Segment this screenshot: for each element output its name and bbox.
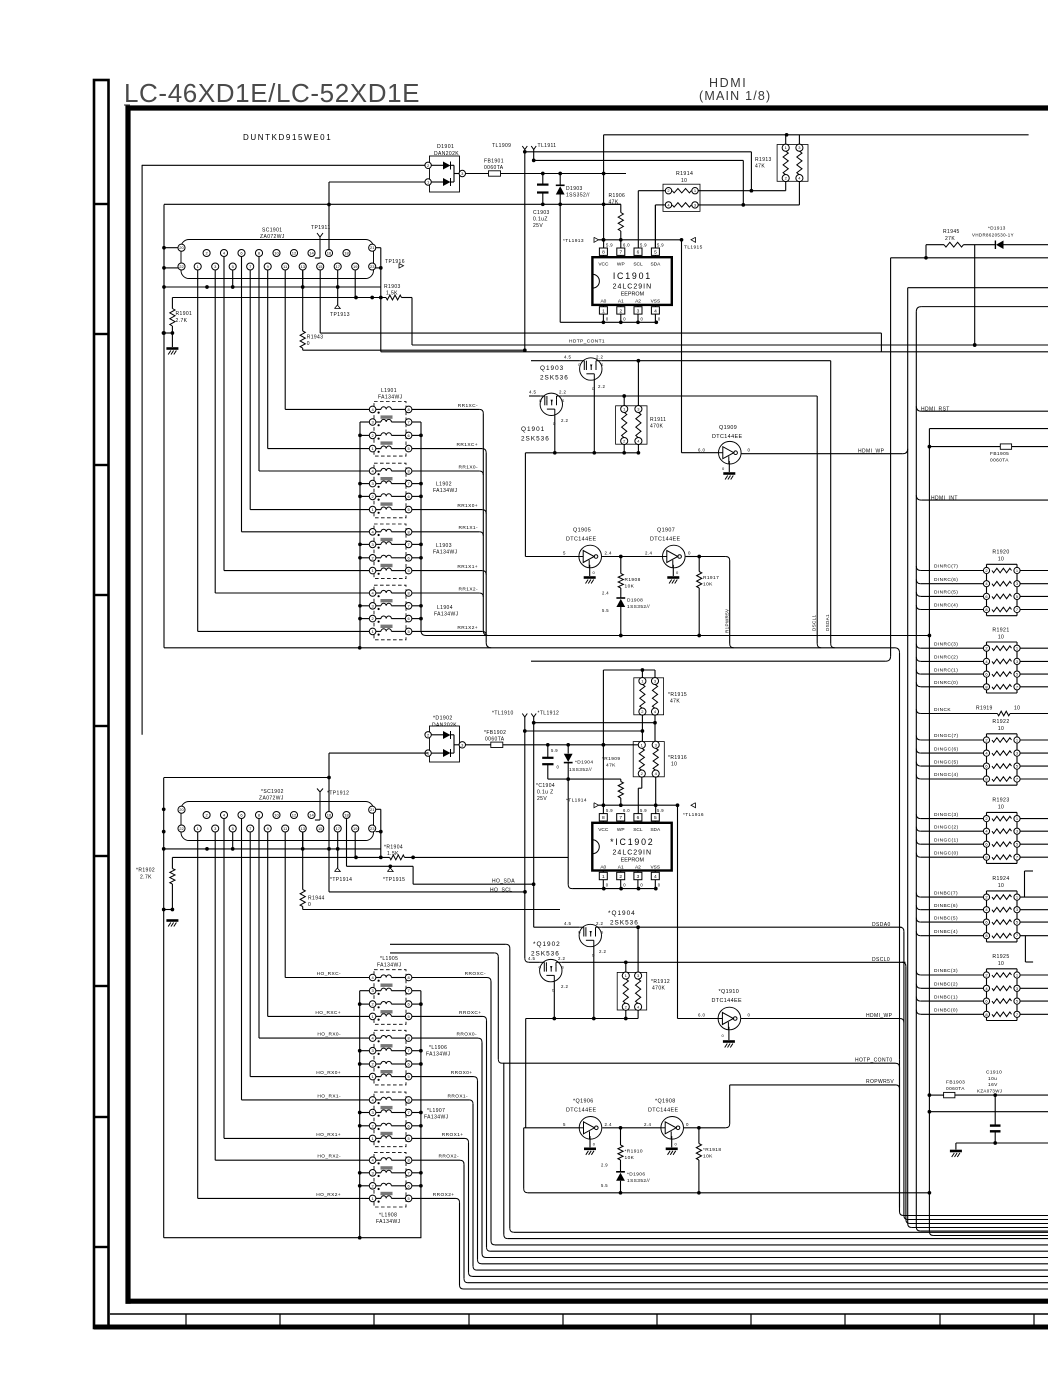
- diode D1908 1SS352//: [602, 588, 650, 636]
- diode D1901 DAN202K: [425, 144, 466, 192]
- svg-text:4.5: 4.5: [528, 956, 535, 961]
- svg-text:G: G: [578, 363, 581, 367]
- svg-text:6.0: 6.0: [698, 1013, 705, 1018]
- svg-text:SDA: SDA: [650, 827, 661, 833]
- svg-text:14: 14: [309, 813, 314, 818]
- ground below R1902: [166, 921, 178, 927]
- svg-text:0060TA: 0060TA: [484, 165, 504, 171]
- svg-text:HO_SDA: HO_SDA: [492, 878, 515, 884]
- svg-text:4.5: 4.5: [564, 921, 571, 926]
- diode D1904 1SS352//: [551, 745, 593, 773]
- wire mid node: [164, 202, 621, 206]
- wire HDTP_CONT1: [412, 343, 1048, 347]
- svg-text:G: G: [578, 931, 581, 935]
- svg-text:HDMI: HDMI: [709, 76, 747, 90]
- wire R1911 pin3 up: [637, 361, 639, 406]
- svg-text:0: 0: [675, 1141, 678, 1146]
- wire HOTP down: [899, 1067, 901, 1207]
- svg-text:5.9: 5.9: [640, 808, 647, 813]
- wire SCL rail: [320, 270, 881, 333]
- svg-text:13: 13: [300, 826, 305, 831]
- resistor R1917 10K: [697, 557, 720, 636]
- wire IC1901 ground bus: [560, 204, 658, 324]
- svg-text:A2: A2: [635, 864, 641, 870]
- svg-text:R1920: R1920: [992, 550, 1009, 556]
- svg-text:HO_RXC+: HO_RXC+: [315, 1010, 341, 1016]
- svg-text:R1PWR5V: R1PWR5V: [725, 608, 730, 633]
- svg-text:10: 10: [1014, 706, 1020, 712]
- svg-text:2: 2: [619, 874, 622, 880]
- svg-text:5.9: 5.9: [640, 242, 647, 247]
- resistor network R1923 10: [916, 798, 1048, 864]
- svg-text:DSDA0: DSDA0: [872, 922, 891, 928]
- svg-text:LC-46XD1E/LC-52XD1E: LC-46XD1E/LC-52XD1E: [124, 78, 420, 108]
- wire SC1901 pin21 right: [376, 248, 383, 352]
- wire R1911 pin1 up: [623, 396, 625, 406]
- svg-text:5.5: 5.5: [601, 1183, 608, 1188]
- svg-text:RROX1+: RROX1+: [442, 1132, 464, 1138]
- svg-text:*C1904: *C1904: [536, 783, 555, 789]
- wire SC1902 pin21 right: [376, 809, 383, 859]
- svg-text:FA134WJ: FA134WJ: [376, 1219, 401, 1225]
- resistor network R1922 10: [916, 719, 1048, 785]
- wire top rail: [604, 133, 1029, 137]
- ground below C1910: [950, 1151, 962, 1157]
- wire SDA rail: [381, 333, 1048, 352]
- svg-text:TL1911: TL1911: [538, 143, 557, 149]
- svg-text:2.4: 2.4: [605, 551, 612, 556]
- svg-text:(MAIN 1/8): (MAIN 1/8): [699, 89, 771, 103]
- svg-text:5: 5: [654, 815, 657, 821]
- svg-text:DINRC(3): DINRC(3): [934, 641, 958, 647]
- svg-text:DTC144EE: DTC144EE: [712, 434, 742, 440]
- svg-text:DSCL1: DSCL1: [812, 615, 817, 631]
- svg-text:2SK536: 2SK536: [610, 919, 639, 926]
- wire TL1912 net: [532, 721, 657, 725]
- svg-text:FA134WJ: FA134WJ: [434, 612, 459, 618]
- svg-text:DINGC(1): DINGC(1): [934, 837, 959, 843]
- svg-text:TL1909: TL1909: [492, 143, 511, 149]
- svg-text:HO_RX2+: HO_RX2+: [316, 1192, 341, 1198]
- test pad TP1913: [330, 270, 350, 318]
- test pad TP1911: [311, 225, 331, 258]
- test pad TP1914: [330, 832, 352, 883]
- svg-text:DINBC(1): DINBC(1): [934, 994, 958, 1000]
- svg-text:2.2: 2.2: [596, 921, 603, 926]
- svg-text:R1919: R1919: [976, 706, 993, 712]
- svg-text:S: S: [562, 966, 565, 970]
- svg-text:RROX0-: RROX0-: [456, 1032, 477, 1038]
- svg-text:2.2: 2.2: [598, 384, 605, 389]
- ground below Q1905: [584, 578, 596, 584]
- svg-text:*R1915: *R1915: [668, 692, 687, 698]
- wire ground rail B: [164, 646, 900, 1059]
- wire TL1915 vertical: [682, 240, 719, 453]
- svg-text:2.7K: 2.7K: [176, 318, 188, 324]
- svg-text:5.5: 5.5: [602, 608, 609, 613]
- bus rail V3: [916, 307, 1048, 1231]
- svg-text:47K: 47K: [755, 164, 765, 170]
- svg-text:0: 0: [748, 448, 751, 453]
- test pad TP1912: [315, 789, 349, 821]
- svg-text:ZA072WJ: ZA072WJ: [260, 234, 285, 240]
- wire rail mid: [929, 1111, 1048, 1113]
- wire SC1901 pin stubs: [233, 270, 356, 297]
- svg-text:4.5: 4.5: [529, 390, 536, 395]
- svg-text:4.5: 4.5: [564, 354, 571, 359]
- wire SC1902 pin23 right: [376, 831, 381, 833]
- svg-text:TP1913: TP1913: [330, 312, 350, 318]
- svg-text:VCC: VCC: [598, 261, 609, 267]
- svg-text:470K: 470K: [650, 424, 664, 430]
- wire R1913 pin1 up: [785, 135, 787, 145]
- svg-text:DINGC(2): DINGC(2): [934, 824, 959, 830]
- svg-text:L1903: L1903: [436, 543, 452, 549]
- wire R1912 pin3 up: [637, 927, 639, 972]
- svg-text:*R1902: *R1902: [136, 868, 155, 874]
- svg-text:47K: 47K: [609, 200, 619, 206]
- wire D1901 pin1 horizontal: [327, 182, 428, 249]
- svg-text:*R1909: *R1909: [602, 756, 620, 762]
- wire Q1901 drain: [553, 415, 557, 454]
- resistor R1919 10 DINCK: [916, 706, 1048, 716]
- resistor network R1914 10: [663, 171, 700, 211]
- svg-text:Q1905: Q1905: [573, 528, 591, 534]
- svg-text:C1903: C1903: [533, 210, 550, 216]
- svg-text:0060TA: 0060TA: [485, 736, 505, 742]
- transistor Q1909 DTC144EE: [698, 425, 751, 464]
- svg-text:3: 3: [637, 308, 640, 314]
- svg-text:HO_SCL: HO_SCL: [490, 887, 512, 893]
- svg-text:*TL1916: *TL1916: [683, 812, 704, 818]
- svg-text:FA134WJ: FA134WJ: [426, 1052, 451, 1058]
- svg-text:*TL1913: *TL1913: [563, 238, 584, 244]
- svg-text:DINCK: DINCK: [934, 707, 951, 713]
- svg-text:R1908: R1908: [625, 577, 641, 583]
- svg-text:RROX0+: RROX0+: [451, 1070, 473, 1076]
- wire R1915 top tie: [603, 668, 655, 678]
- svg-text:5.9: 5.9: [551, 748, 558, 753]
- wire aux rail to HOTP: [390, 953, 498, 1059]
- net label HDTP_CONT1: [569, 339, 605, 345]
- svg-text:R1944: R1944: [308, 896, 325, 902]
- wire SC1901 pin20: [164, 247, 178, 249]
- svg-text:0060TA: 0060TA: [946, 1086, 965, 1092]
- wire R1915 pin2 down: [641, 715, 643, 742]
- bus rail V4: [928, 429, 1048, 1236]
- svg-text:DINRC(4): DINRC(4): [934, 603, 958, 609]
- svg-text:0: 0: [748, 1013, 751, 1018]
- wires filters left feeds: [198, 409, 370, 631]
- svg-text:FA134WJ: FA134WJ: [377, 963, 402, 969]
- test land TL1913: [563, 237, 599, 244]
- wire lower FET bus: [526, 1019, 638, 1128]
- resistor R1943 0: [300, 270, 527, 352]
- resistor R1944 0: [300, 832, 560, 909]
- svg-text:0: 0: [688, 551, 691, 556]
- svg-text:*SC1902: *SC1902: [261, 789, 284, 795]
- net label HDMI_WP top: [741, 448, 908, 454]
- svg-text:0: 0: [676, 570, 679, 575]
- svg-text:VHDR8620530-1Y: VHDR8620530-1Y: [972, 233, 1014, 238]
- svg-text:25V: 25V: [537, 796, 547, 802]
- svg-text:FB1901: FB1901: [484, 159, 504, 165]
- voltage labels IC1902 top: [606, 808, 664, 813]
- svg-text:HO_RX1+: HO_RX1+: [316, 1132, 341, 1138]
- resistor network R1916 10: [633, 741, 687, 777]
- svg-text:D1903: D1903: [566, 186, 583, 192]
- svg-text:0: 0: [593, 1141, 596, 1146]
- svg-text:DTC144EE: DTC144EE: [712, 998, 742, 1004]
- wire left vertical to D1901 pin2 / D1902 pin2: [141, 165, 143, 735]
- test land TL1912: [531, 711, 559, 928]
- svg-text:*IC1902: *IC1902: [610, 837, 654, 847]
- svg-text:DSCL0: DSCL0: [872, 957, 890, 963]
- svg-text:25V: 25V: [533, 223, 543, 229]
- diode D1902 DAN202K: [425, 716, 466, 763]
- svg-text:7: 7: [619, 250, 622, 256]
- svg-text:VSS: VSS: [651, 299, 661, 305]
- wire R1912 pins down: [624, 1010, 638, 1020]
- svg-text:*FB1902: *FB1902: [484, 730, 506, 736]
- svg-text:*R1918: *R1918: [703, 1147, 721, 1153]
- left registration column: [94, 80, 109, 1328]
- svg-text:DAN202K: DAN202K: [434, 151, 459, 157]
- net label ROPWR5V: [866, 1079, 894, 1085]
- net label DSDA0: [872, 922, 904, 931]
- wire R1914 pin2 to Q1903 node: [638, 191, 665, 248]
- net label HDMI_RST: [916, 406, 1048, 412]
- wire R1916 pin4 down: [654, 777, 658, 814]
- svg-text:R1903: R1903: [384, 284, 401, 290]
- net label HO_SDA: [492, 878, 515, 884]
- ground below Q1909: [723, 474, 735, 480]
- svg-text:8: 8: [602, 815, 605, 821]
- svg-text:19: 19: [353, 264, 358, 269]
- inductor block L1901 FA134WJ: [369, 388, 412, 456]
- wire TL1909 net: [525, 152, 753, 193]
- svg-text:2.4: 2.4: [605, 1122, 612, 1127]
- svg-text:1.5K: 1.5K: [386, 291, 398, 297]
- svg-text:DINGC(0): DINGC(0): [934, 850, 959, 856]
- wire D1901 pin2 horizontal: [142, 164, 428, 166]
- svg-text:10: 10: [998, 883, 1004, 889]
- svg-text:2SK536: 2SK536: [521, 436, 550, 443]
- net label R1PWR5V: [725, 608, 730, 633]
- net label HDMI_INT: [916, 495, 1048, 501]
- svg-text:*D1906: *D1906: [627, 1171, 645, 1177]
- wire TL1914 rail: [599, 803, 680, 807]
- svg-text:0.1u Z: 0.1u Z: [537, 790, 554, 796]
- svg-text:WP: WP: [617, 827, 625, 833]
- ferrite bead FB1901 0060TA: [484, 159, 504, 177]
- svg-text:DTC144EE: DTC144EE: [648, 1107, 678, 1113]
- wire D1904 to IC bus: [566, 763, 572, 889]
- transistor Q1907 DTC144EE: [645, 528, 691, 568]
- svg-text:A2: A2: [635, 299, 641, 305]
- diode D1913 VHD9820530-1Y: [972, 226, 1048, 250]
- svg-text:KZA073WJ: KZA073WJ: [977, 1088, 1002, 1093]
- svg-text:R1925: R1925: [992, 954, 1009, 960]
- svg-text:DINBC(3): DINBC(3): [934, 968, 958, 974]
- svg-text:0: 0: [593, 570, 596, 575]
- bottom ruler: [94, 1314, 1048, 1327]
- wire TL1913 rail: [599, 238, 684, 242]
- svg-text:DSDA1: DSDA1: [825, 614, 830, 631]
- svg-text:DINBC(4): DINBC(4): [934, 929, 958, 935]
- svg-text:18: 18: [344, 251, 349, 256]
- svg-text:10K: 10K: [703, 1154, 713, 1160]
- lower filter ground bus right: [412, 991, 423, 1238]
- svg-text:6.0: 6.0: [623, 242, 630, 247]
- ferrite bead FB1903 0060TA: [929, 1080, 1048, 1098]
- wire Q1910 emitter ground: [722, 1027, 729, 1040]
- ground below Q1907: [667, 578, 679, 584]
- svg-text:L1902: L1902: [436, 482, 452, 488]
- svg-text:20: 20: [179, 807, 184, 812]
- svg-text:VSS: VSS: [650, 864, 660, 870]
- bus rail V2: [908, 288, 1048, 1228]
- svg-text:4: 4: [654, 874, 657, 880]
- bus rail V1: [886, 258, 1048, 661]
- svg-text:HO_RXC-: HO_RXC-: [317, 971, 341, 977]
- svg-text:IC1901: IC1901: [613, 271, 652, 281]
- wire Q1906 emitter ground: [590, 1136, 596, 1147]
- svg-text:RROXC-: RROXC-: [465, 971, 486, 977]
- svg-text:R1943: R1943: [307, 335, 324, 341]
- capacitor C1904 0.1uZ 25V: [536, 745, 555, 802]
- svg-text:0: 0: [308, 902, 311, 908]
- svg-text:47K: 47K: [606, 763, 616, 769]
- svg-text:RR1X0+: RR1X0+: [457, 503, 478, 509]
- svg-text:18: 18: [344, 813, 349, 818]
- svg-text:1.5K: 1.5K: [387, 851, 399, 857]
- wire Q1908 out: [684, 1085, 730, 1130]
- resistor R1903 1.5K: [172, 284, 412, 300]
- svg-text:*R1916: *R1916: [668, 755, 687, 761]
- wire R1913 pin4 down: [798, 181, 800, 205]
- svg-text:RROXC+: RROXC+: [459, 1010, 482, 1016]
- net label DSCL1: [812, 615, 817, 631]
- svg-text:C1910: C1910: [986, 1070, 1002, 1076]
- svg-text:2.2: 2.2: [559, 390, 566, 395]
- svg-text:RR1X2-: RR1X2-: [459, 586, 478, 592]
- resistor R1909 47K: [602, 756, 623, 805]
- svg-text:17: 17: [335, 826, 340, 831]
- svg-text:*R1910: *R1910: [625, 1149, 643, 1155]
- svg-text:0: 0: [722, 466, 725, 471]
- svg-text:4: 4: [654, 308, 657, 314]
- wire pin7 vertical: [620, 240, 622, 248]
- diode D1906 1SS352//: [601, 1160, 650, 1193]
- wire Q1910 out: [741, 1018, 900, 1020]
- svg-text:R1917: R1917: [703, 575, 719, 581]
- wire lower ground rail: [528, 1191, 930, 1195]
- svg-text:10: 10: [998, 726, 1004, 732]
- svg-text:RR1X1-: RR1X1-: [459, 525, 478, 531]
- svg-text:2: 2: [619, 308, 622, 314]
- svg-text:2.2: 2.2: [561, 418, 568, 423]
- ground below Q1908: [666, 1149, 678, 1155]
- wires SC1901 to filters: [198, 257, 286, 632]
- wire Q1907 out: [686, 555, 734, 648]
- svg-text:15: 15: [318, 826, 323, 831]
- svg-text:10K: 10K: [625, 1155, 635, 1161]
- svg-text:R1945: R1945: [943, 229, 960, 235]
- ground below Q1906: [584, 1149, 596, 1155]
- svg-text:1SS352//: 1SS352//: [569, 767, 592, 773]
- wire left rail lower extension: [163, 910, 165, 1238]
- svg-text:DINBC(6): DINBC(6): [934, 903, 958, 909]
- transistor Q1904 2SK536: [534, 910, 902, 958]
- svg-text:FA134WJ: FA134WJ: [433, 488, 458, 494]
- svg-text:FB1903: FB1903: [946, 1080, 965, 1086]
- connector SC1901 ZA072WJ: [178, 228, 376, 279]
- svg-text:2.2: 2.2: [558, 956, 565, 961]
- svg-text:6.0: 6.0: [698, 448, 705, 453]
- wire SC1901 pin22: [164, 267, 178, 269]
- wire R1924 pin1 bracket: [1025, 871, 1034, 897]
- svg-text:FA134WJ: FA134WJ: [433, 550, 458, 556]
- svg-text:0: 0: [307, 341, 310, 347]
- svg-text:TP1916: TP1916: [385, 259, 405, 265]
- svg-text:DAN202K: DAN202K: [432, 722, 457, 728]
- svg-text:DINGC(7): DINGC(7): [934, 733, 959, 739]
- wire R1915 pin4 down: [654, 715, 656, 742]
- transistor Q1908 DTC144EE: [644, 1099, 689, 1140]
- svg-text:0: 0: [557, 765, 560, 770]
- svg-text:HO_RX0+: HO_RX0+: [316, 1070, 341, 1076]
- svg-text:5.9: 5.9: [606, 242, 613, 247]
- wire IC1902 ground bus: [572, 887, 657, 891]
- svg-text:A1: A1: [618, 864, 624, 870]
- net label HO_SCL: [490, 887, 512, 893]
- svg-text:1SS352//: 1SS352//: [627, 1178, 650, 1184]
- wire R1914 pin3 to R1913: [698, 204, 799, 206]
- resistor R1910 10K: [601, 1128, 643, 1168]
- svg-text:*L1905: *L1905: [380, 956, 398, 962]
- transistor Q1901 2SK536: [521, 390, 817, 443]
- svg-text:HO_RX0-: HO_RX0-: [317, 1032, 341, 1038]
- svg-text:6.0: 6.0: [623, 808, 630, 813]
- svg-text:A0: A0: [600, 864, 606, 870]
- svg-text:*Q1906: *Q1906: [573, 1099, 594, 1105]
- wire ROPWR5V: [730, 1085, 900, 1089]
- svg-text:21: 21: [370, 245, 375, 250]
- svg-text:12: 12: [292, 813, 297, 818]
- svg-text:10: 10: [998, 961, 1004, 967]
- svg-text:10: 10: [681, 178, 687, 184]
- wire left vertical node: [162, 205, 166, 648]
- svg-text:SC1901: SC1901: [262, 228, 282, 234]
- svg-text:1SS352//: 1SS352//: [566, 193, 590, 199]
- svg-text:DINRC(1): DINRC(1): [934, 667, 958, 673]
- svg-text:1: 1: [602, 308, 605, 314]
- svg-text:16V: 16V: [988, 1082, 998, 1088]
- wire D1901 pin3 to node: [466, 172, 627, 176]
- wire Q1902 drain: [552, 982, 556, 1021]
- filter ground bus right: [412, 422, 426, 636]
- svg-text:16: 16: [327, 813, 332, 818]
- svg-text:17: 17: [335, 264, 340, 269]
- svg-text:FA134WJ: FA134WJ: [378, 395, 403, 401]
- wire Q1908 emitter ground: [672, 1136, 678, 1147]
- svg-text:14: 14: [309, 251, 314, 256]
- svg-text:12: 12: [292, 251, 297, 256]
- wire Q1906 out: [602, 1126, 661, 1130]
- wire R1913 pin2 down: [785, 181, 787, 190]
- net label HDMI_WP bottom: [866, 1013, 904, 1022]
